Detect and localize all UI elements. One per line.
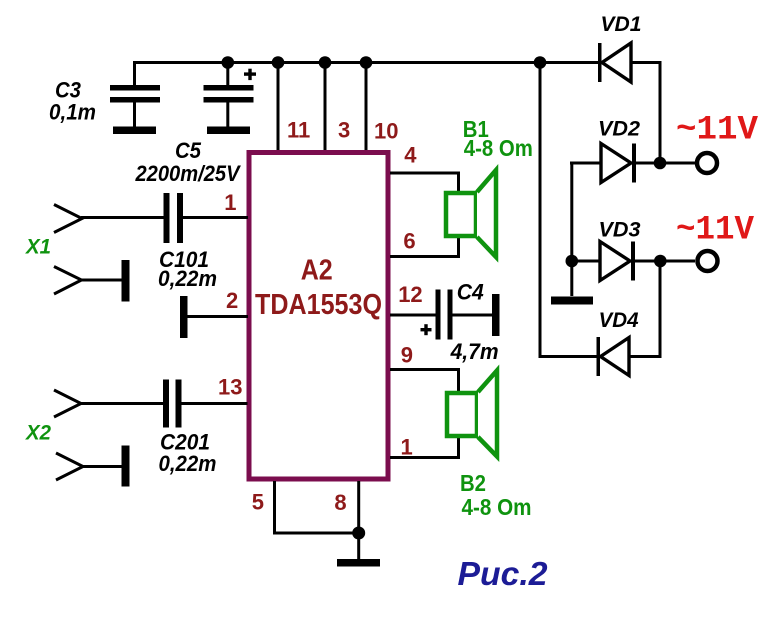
node dot VD3/VD4: [654, 255, 667, 268]
wire pin 11 to rail: [277, 62, 280, 152]
svg-text:X1: X1: [25, 235, 51, 259]
wire pin 4: [390, 172, 460, 193]
svg-text:13: 13: [218, 375, 242, 400]
label C5 value: [135, 138, 242, 186]
node dot pin10/rail: [360, 56, 373, 69]
capacitor C3: [110, 62, 160, 134]
svg-text:3: 3: [338, 118, 350, 143]
op IC A2 TDA1553Q: [249, 153, 388, 480]
wire VD2 anode branch: [570, 162, 601, 262]
svg-text:VD2: VD2: [598, 117, 640, 141]
terminal bar pin 2: [180, 296, 188, 338]
terminal bar X1 shield: [122, 260, 130, 302]
capacitor C5 (electrolytic): [204, 62, 257, 134]
wire diode branch vertical: [539, 62, 542, 357]
svg-text:2200m/25V: 2200m/25V: [135, 161, 242, 186]
wire top supply rail: [133, 61, 599, 64]
label C201 value: [159, 430, 217, 476]
connector X2 upper arrow: [54, 390, 81, 417]
svg-text:5: 5: [252, 490, 264, 515]
wire pin 8: [357, 481, 360, 559]
svg-text:0,22m: 0,22m: [159, 451, 217, 476]
wire pin 2: [187, 315, 248, 318]
terminal circle output 2: [698, 251, 718, 271]
wire ground branch: [570, 261, 573, 296]
svg-text:C5: C5: [175, 138, 201, 163]
diode VD4: [597, 337, 630, 376]
svg-text:TDA1553Q: TDA1553Q: [255, 289, 382, 321]
label B2: [460, 470, 532, 520]
svg-text:Puc.2: Puc.2: [458, 555, 549, 592]
label C4 value: [450, 280, 499, 364]
node dot pin3/rail: [319, 56, 332, 69]
wire pin 3 to rail: [324, 62, 327, 152]
terminal bar X2 shield: [122, 446, 130, 487]
wire X1 shield to bar: [81, 279, 122, 282]
capacitor C101: [164, 193, 184, 243]
wire pin 1 (to B2): [390, 437, 460, 459]
wire pin 12: [390, 314, 436, 317]
svg-text:12: 12: [398, 282, 422, 307]
svg-text:9: 9: [401, 343, 413, 368]
svg-text:VD4: VD4: [599, 308, 639, 332]
svg-text:B2: B2: [460, 470, 486, 496]
svg-text:X2: X2: [25, 421, 51, 445]
svg-text:1: 1: [224, 190, 236, 215]
ground bar diode branch: [551, 297, 593, 305]
svg-text:C4: C4: [457, 280, 484, 305]
svg-text:~11V: ~11V: [676, 112, 759, 150]
diode VD3: [600, 242, 635, 281]
wire VD4 connections: [539, 261, 662, 358]
wire pin 6: [390, 238, 460, 258]
wire VD3 cathode to output: [635, 260, 695, 263]
wire VD3 anode: [572, 260, 600, 263]
node dot C5/rail: [222, 56, 235, 69]
wire pin 10 to rail: [365, 62, 368, 152]
wire pin 5: [273, 481, 360, 535]
svg-text:0,1m: 0,1m: [49, 99, 96, 124]
label B1: [463, 116, 533, 161]
connector X1 lower arrow: [54, 267, 82, 295]
svg-text:~11V: ~11V: [676, 212, 755, 250]
speaker B2: [447, 371, 497, 457]
svg-text:1: 1: [401, 435, 413, 460]
diode VD2: [601, 144, 636, 183]
node dot VD1/VD2: [654, 157, 667, 170]
node dot pin5/pin8: [352, 527, 365, 540]
label C101 value: [158, 247, 217, 291]
connector X1 upper arrow: [54, 205, 82, 233]
label C3 value: [49, 77, 96, 124]
capacitor C201: [163, 380, 182, 428]
svg-text:10: 10: [374, 119, 398, 144]
wire X2 shield to bar: [82, 465, 122, 468]
wire C101 to pin 1: [183, 216, 248, 219]
svg-text:11: 11: [287, 118, 310, 143]
svg-text:4-8 Om: 4-8 Om: [464, 135, 533, 161]
wire X1 input to C101: [81, 216, 164, 219]
svg-text:VD3: VD3: [599, 218, 641, 242]
wire pin 9: [390, 368, 460, 393]
terminal circle output 1: [697, 153, 717, 173]
svg-text:4: 4: [404, 143, 417, 168]
svg-text:4,7m: 4,7m: [450, 339, 499, 364]
svg-text:4-8 Om: 4-8 Om: [462, 494, 532, 520]
svg-text:0,22m: 0,22m: [158, 266, 217, 291]
capacitor C4 (electrolytic): [421, 290, 500, 340]
speaker B1: [446, 170, 496, 257]
svg-text:VD1: VD1: [601, 12, 642, 36]
wire VD1 to VD2: [631, 61, 662, 164]
wire X2 input to C201: [80, 402, 163, 405]
wire C201 to pin 13: [182, 402, 248, 405]
node dot VD2/VD3 anodes: [566, 255, 579, 268]
svg-text:8: 8: [334, 490, 346, 515]
node dot pin11/rail: [272, 56, 285, 69]
wire VD2 cathode to output: [636, 162, 695, 165]
connector X2 lower arrow: [56, 453, 83, 480]
ground bar bottom: [337, 559, 380, 567]
diode VD1: [598, 43, 631, 82]
svg-text:2: 2: [226, 288, 238, 313]
svg-text:6: 6: [403, 229, 415, 254]
svg-text:A2: A2: [301, 255, 333, 287]
node dot rail/diode branch: [534, 56, 547, 69]
